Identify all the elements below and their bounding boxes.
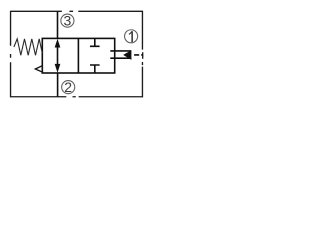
digit 1 bbox=[129, 31, 132, 42]
double arrow top head bbox=[55, 39, 61, 48]
enclosure bottom border (dash-dot) bbox=[11, 96, 143, 98]
port 2 line bbox=[57, 73, 59, 97]
valve body: two position squares bbox=[42, 38, 114, 73]
spring (zigzag) bbox=[14, 39, 42, 55]
port label circle 3 bbox=[61, 14, 74, 27]
open triangle (seat arrow at bottom-left of valve) bbox=[35, 66, 42, 72]
enclosure left border (dash-dot) bbox=[10, 11, 12, 98]
enclosure right border (dash-dot) bbox=[141, 11, 143, 98]
port 3 riser line bbox=[57, 11, 59, 38]
double arrow bottom head bbox=[55, 64, 61, 73]
hydraulic 2-position 2-way pilot-operated valve schematic bbox=[0, 0, 153, 117]
enclosure top border (dash-dot) bbox=[11, 10, 143, 12]
port label circle 1 bbox=[125, 30, 138, 43]
blocked port T (bottom, right square) bbox=[90, 65, 100, 73]
pilot channel top line bbox=[110, 50, 131, 52]
pilot arrowhead (solid, pointing left) bbox=[123, 50, 131, 60]
pilot channel bottom line bbox=[110, 57, 131, 59]
svg-text:2: 2 bbox=[64, 79, 72, 95]
divider between squares bbox=[77, 38, 79, 73]
svg-text:3: 3 bbox=[64, 13, 72, 29]
double-headed arrow shaft (left square flow path) bbox=[57, 45, 59, 68]
blocked port T (top, right square) bbox=[90, 38, 100, 46]
port label circle 2 bbox=[62, 81, 75, 94]
pilot dashed segment bbox=[134, 54, 143, 56]
